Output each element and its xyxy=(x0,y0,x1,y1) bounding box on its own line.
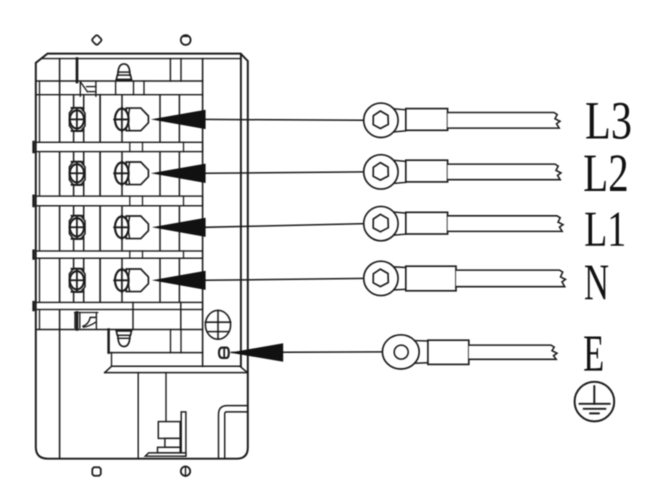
crimp barrel L2 xyxy=(406,160,448,182)
arrow N xyxy=(152,271,206,290)
label E xyxy=(584,337,602,371)
body left front face line xyxy=(39,81,41,330)
row L3 left terminal screw xyxy=(69,108,85,132)
leader line L1 xyxy=(205,224,365,228)
cap band vertical c xyxy=(115,81,117,95)
earth ground symbol xyxy=(575,382,615,422)
cap band top line xyxy=(36,80,203,82)
arrow L1 xyxy=(152,218,206,237)
left inner wall xyxy=(59,59,61,459)
lug ring N xyxy=(364,261,406,295)
row L2 right terminal screw xyxy=(114,161,148,185)
cap band vertical e xyxy=(143,81,145,95)
label L2 xyxy=(584,156,605,191)
grounding screw head xyxy=(205,310,230,339)
row N left terminal screw xyxy=(69,269,85,293)
leader line L3 xyxy=(205,118,365,121)
row L3 right terminal screw xyxy=(114,107,148,131)
leader line N xyxy=(205,278,365,280)
top mounting hole right xyxy=(181,35,191,45)
lug ring L3 xyxy=(364,103,406,137)
crimp barrel N xyxy=(406,266,456,291)
wire E xyxy=(469,345,557,359)
tray box xyxy=(109,330,203,353)
bay vertical lines xyxy=(74,95,180,303)
bottom right pocket xyxy=(219,406,248,459)
top notch detail xyxy=(80,82,96,97)
bottom mounting hole right xyxy=(181,466,190,476)
body right side face line inner xyxy=(240,54,242,366)
top mounting hole left xyxy=(92,35,101,45)
row L2 left terminal screw xyxy=(69,162,85,186)
wire L3 xyxy=(448,113,560,129)
wire L1 xyxy=(448,216,563,232)
label N xyxy=(585,266,608,300)
row N right terminal screw xyxy=(114,268,148,292)
bay right wall xyxy=(202,59,204,367)
leader line E xyxy=(232,351,383,354)
bottom mounting hole left xyxy=(92,467,101,475)
bottom bracket xyxy=(145,412,186,456)
bottom notch thick edge xyxy=(76,313,79,330)
lug ring E xyxy=(382,335,428,369)
label L3 xyxy=(586,103,608,138)
separator bar 1 xyxy=(34,142,203,152)
shelf lip xyxy=(105,353,248,373)
cap vertical divider b xyxy=(180,59,182,81)
top dome screw xyxy=(117,64,132,80)
row L1 right terminal screw xyxy=(114,215,148,239)
wire N xyxy=(456,270,566,287)
cap thick vertical notch line xyxy=(76,59,79,82)
lug ring L2 xyxy=(364,155,406,189)
crimp barrel L3 xyxy=(406,109,448,131)
wire L2 xyxy=(448,164,561,180)
body top inner edge line xyxy=(43,58,241,60)
bottom section verticals xyxy=(137,373,139,459)
cap vertical divider a xyxy=(169,59,171,81)
ledge line xyxy=(36,329,203,331)
separator bar 2 xyxy=(34,196,203,206)
bottom notch detail xyxy=(75,313,98,330)
arrow L2 xyxy=(151,164,206,183)
crimp barrel E xyxy=(428,340,469,364)
arrow E xyxy=(230,343,284,362)
crimp barrel L1 xyxy=(406,212,448,234)
earth terminal small screw xyxy=(219,348,229,358)
terminal block outer body xyxy=(36,54,248,459)
leader line L2 xyxy=(205,172,365,173)
lower ledge verticals xyxy=(132,302,134,329)
cap band vertical d xyxy=(133,81,135,95)
arrow L3 xyxy=(151,110,206,129)
cap band bottom line xyxy=(36,94,203,96)
bottom dome screw xyxy=(117,331,132,347)
lug ring L1 xyxy=(364,206,406,240)
separator bar 4 xyxy=(34,302,203,310)
row L1 left terminal screw xyxy=(69,216,85,240)
separator bar 3 xyxy=(34,251,203,259)
label L1 xyxy=(585,213,605,246)
